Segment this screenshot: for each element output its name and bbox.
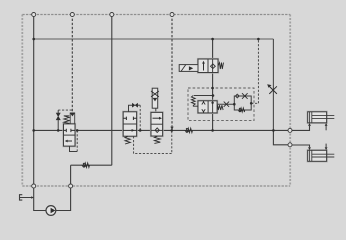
orifice X on outlet <box>224 102 229 107</box>
V4 junction dot in right box <box>211 102 213 104</box>
V1 spring <box>64 116 70 124</box>
gray pressure bus (horizontal) <box>34 38 274 40</box>
valve V1 pressure reducing <box>64 124 76 146</box>
cylinder CYL1 (top) <box>308 112 335 123</box>
valve V5 solenoid valve <box>198 59 218 73</box>
coil on pump branch <box>82 163 90 167</box>
branch to lower cylinder <box>273 130 290 144</box>
CYL1 vent port <box>325 123 328 126</box>
V1 pilot arrowhead <box>70 113 76 117</box>
pilot arrowhead at main line <box>170 127 173 131</box>
pump P1 <box>46 206 56 216</box>
V5 spring <box>218 63 224 69</box>
upper box flow arrow <box>153 117 160 119</box>
lower box metering line <box>151 129 163 131</box>
V4 pilot line top <box>194 95 213 97</box>
pilot dashed link <box>58 109 72 111</box>
lower box left arrow <box>67 140 72 142</box>
right box through line <box>212 101 214 113</box>
loop diamond <box>235 94 239 98</box>
V4 outlet wire <box>217 103 234 105</box>
tank E symbol <box>20 195 32 200</box>
solenoid/compensator vertical x=212.6 <box>212 39 214 130</box>
V1 pilot channel <box>70 113 75 124</box>
V2 spring <box>125 136 130 144</box>
V5 solenoid actuator <box>179 65 198 72</box>
adjustable throttle on x=273.4 <box>269 86 277 94</box>
wire right vertical x=273.4 <box>272 39 274 130</box>
V3 head box <box>152 88 158 108</box>
damping loop <box>234 96 251 110</box>
compensator dashed box <box>188 88 254 121</box>
lower box metering diamond <box>155 128 159 133</box>
upper box blocked stubs <box>123 117 136 120</box>
V1 drain loop <box>70 146 78 151</box>
valve V4 compensator <box>198 101 217 113</box>
port nodes on enclosure <box>32 13 292 189</box>
lower box flow arrow <box>123 129 136 131</box>
left supply bus <box>34 15 46 211</box>
CYL1 supply port <box>308 123 311 126</box>
V3 spring <box>154 136 160 143</box>
wire pump branch with coil <box>71 164 112 166</box>
V4 spring right <box>218 105 224 110</box>
LS pilot dashed <box>251 39 258 103</box>
CYL2 supply port <box>308 147 311 150</box>
V1 feedback dashed <box>76 130 78 151</box>
CYL2 vent port <box>325 147 328 150</box>
wire vertical x=111.8 <box>111 15 113 166</box>
main line y=130.4 <box>34 129 290 131</box>
upper box blocked stubs <box>64 129 76 132</box>
enclosure dashed frame <box>22 15 290 187</box>
pilot line dashed x=72.3 <box>71 15 73 113</box>
V2 bottom pilot dashed <box>134 130 172 153</box>
left box up arrow <box>203 63 205 71</box>
valve V2 <box>123 112 136 136</box>
left box double arrow <box>203 101 205 113</box>
cylinder CYL2 (bottom) <box>308 150 335 161</box>
V1 check valve <box>56 113 60 120</box>
V4 spring left <box>191 96 198 107</box>
pump suction/discharge wires <box>56 165 71 210</box>
loop coil <box>238 108 245 112</box>
wire check to main <box>57 110 59 130</box>
coil on main line <box>185 128 193 132</box>
pilot line dashed x=172 <box>171 15 173 128</box>
right box diamond on line <box>212 59 214 73</box>
loop orifice X <box>242 93 248 99</box>
V2 pilot with orifice <box>129 105 133 112</box>
